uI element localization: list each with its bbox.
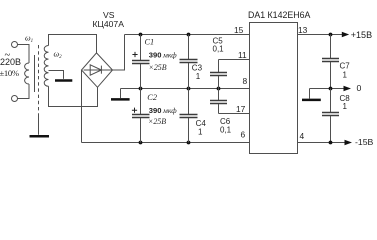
arrow 0V	[344, 86, 352, 91]
svg-text:1: 1	[343, 102, 348, 111]
wire shield to ground	[38, 116, 40, 135]
svg-text:220В: 220В	[0, 57, 21, 67]
node bottom rail / C2	[139, 141, 143, 145]
ground (center tap)	[55, 79, 72, 82]
arrow -15V	[345, 140, 353, 145]
node top rail / C3	[187, 33, 191, 37]
transformer T1 primary winding w1	[25, 63, 29, 84]
svg-text:0: 0	[357, 83, 362, 93]
wire bridge minus (left corner) down to bottom rail	[81, 70, 83, 143]
node top rail / C1	[139, 33, 143, 37]
node mid rail / C3 C4	[187, 87, 191, 91]
bridge rectifier VS diamond	[82, 53, 113, 87]
svg-text:0,1: 0,1	[220, 126, 232, 135]
capacitor C1	[140, 35, 142, 61]
svg-text:8: 8	[243, 76, 248, 86]
transformer core	[34, 55, 36, 92]
capacitor C6	[218, 89, 220, 101]
svg-text:-15В: -15В	[355, 137, 374, 147]
node mid rail / C1 C2	[139, 87, 143, 91]
node bottom rail / C4	[187, 141, 191, 145]
node mid rail / C5 C6	[217, 87, 221, 91]
wire mid ground rail	[121, 88, 250, 90]
wire bridge plus (right corner) to top rail	[113, 35, 125, 71]
capacitor C2	[140, 89, 142, 115]
node +15 / C7	[329, 33, 333, 37]
svg-text:1: 1	[343, 71, 348, 80]
diode inside bridge	[84, 69, 112, 71]
svg-text:ω2: ω2	[54, 50, 63, 61]
wire bottom rail	[82, 142, 250, 144]
terminal X2 bottom input	[12, 96, 18, 102]
svg-text:мкф: мкф	[162, 51, 177, 60]
svg-text:4: 4	[300, 131, 305, 141]
plus sign C2	[132, 108, 137, 113]
svg-text:11: 11	[238, 50, 247, 60]
terminal X1 top input	[12, 42, 18, 48]
svg-text:±10%: ±10%	[0, 68, 19, 78]
wire 0V output line	[310, 88, 345, 90]
svg-text:C7: C7	[340, 62, 351, 71]
svg-text:390: 390	[149, 106, 162, 115]
svg-text:0,1: 0,1	[213, 44, 225, 53]
svg-text:13: 13	[298, 25, 308, 35]
ground (shield)	[30, 135, 50, 138]
svg-text:15: 15	[234, 25, 244, 35]
wire top rail	[125, 34, 250, 36]
transformer shield (dashed)	[38, 45, 40, 116]
capacitor C5	[218, 60, 220, 73]
plus sign C1	[132, 52, 137, 57]
svg-text:×25В: ×25В	[148, 117, 166, 126]
node -15 / C8	[329, 141, 333, 145]
wire pin 11 line	[219, 59, 250, 61]
wire pin 17 line	[219, 113, 250, 115]
wire 0V to ground	[309, 89, 311, 99]
svg-text:17: 17	[236, 104, 246, 114]
capacitor C8	[330, 89, 332, 113]
IC DA1 body	[250, 23, 298, 154]
wire secondary top to bridge AC1	[49, 35, 97, 53]
svg-text:ω1: ω1	[25, 34, 33, 45]
wire input top to primary	[18, 45, 30, 64]
wire center tap	[49, 71, 64, 79]
svg-text:+15В: +15В	[351, 30, 372, 40]
svg-text:390: 390	[149, 51, 162, 60]
wire secondary bottom to bridge AC2	[49, 86, 98, 106]
node 0 / C7 C8	[329, 87, 333, 91]
capacitor C4	[188, 89, 190, 115]
svg-text:6: 6	[241, 130, 246, 140]
svg-text:×25В: ×25В	[149, 63, 167, 72]
svg-text:1: 1	[196, 72, 201, 81]
wire mid rail to ground	[120, 89, 122, 99]
svg-text:DA1 К142ЕН6А: DA1 К142ЕН6А	[248, 10, 310, 20]
svg-text:1: 1	[198, 128, 203, 137]
arrow +15V	[342, 32, 349, 37]
wire primary bottom to input	[18, 84, 30, 99]
wire +15V output line	[298, 34, 344, 36]
svg-text:C1: C1	[145, 38, 155, 47]
wire -15V output line	[298, 142, 345, 144]
ground (mid rail)	[111, 98, 130, 101]
transformer T1 secondary winding w2	[44, 46, 48, 87]
capacitor C3	[188, 35, 190, 60]
capacitor C7	[330, 35, 332, 59]
svg-text:C2: C2	[147, 93, 157, 102]
ground (output common)	[302, 99, 321, 102]
svg-text:мкф: мкф	[162, 106, 177, 115]
svg-text:КЦ407А: КЦ407А	[93, 19, 125, 29]
